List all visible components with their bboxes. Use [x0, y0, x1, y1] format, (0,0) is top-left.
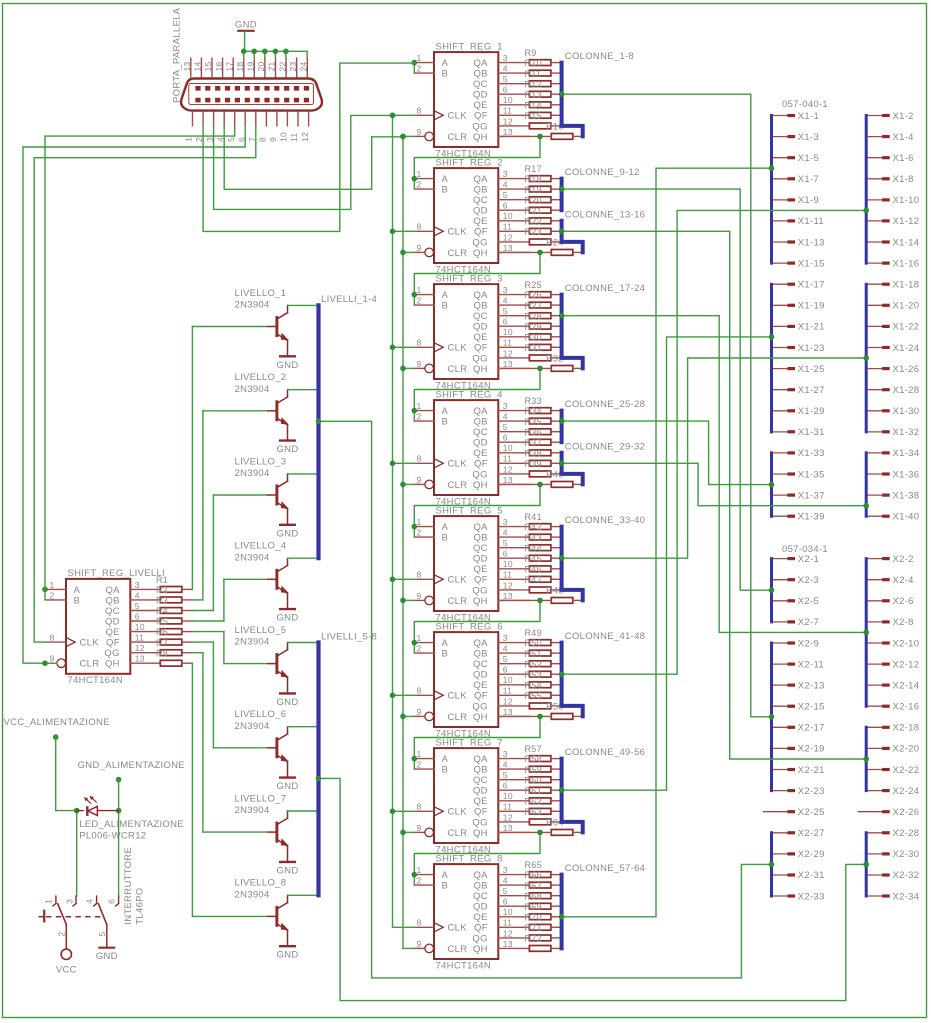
svg-text:COLONNE_41-48: COLONNE_41-48	[565, 631, 645, 642]
svg-text:X1-21: X1-21	[798, 322, 825, 333]
svg-text:R8: R8	[156, 648, 168, 658]
svg-text:13: 13	[503, 127, 513, 137]
output pin stubs with numbers	[498, 865, 529, 949]
connector pin X1-15	[772, 258, 825, 269]
svg-text:GND: GND	[276, 613, 298, 624]
resistor R9	[525, 48, 551, 65]
output pin stubs with numbers	[498, 749, 529, 833]
svg-text:QF: QF	[474, 807, 488, 818]
connector pin X1-32	[866, 427, 919, 438]
svg-text:QA: QA	[473, 58, 488, 69]
svg-text:R5: R5	[156, 617, 168, 627]
svg-text:R62: R62	[525, 796, 542, 806]
svg-text:LIVELLO_5: LIVELLO_5	[235, 625, 287, 636]
svg-text:X2-11: X2-11	[798, 659, 824, 670]
wire resistor R29 to bus	[551, 336, 562, 338]
svg-text:1: 1	[417, 401, 422, 411]
svg-text:5: 5	[135, 601, 140, 611]
svg-text:X1-5: X1-5	[798, 153, 819, 164]
ground symbol GND at switch	[96, 948, 118, 963]
connector pin X1-21	[772, 322, 825, 333]
bus COLONNE_13-16	[562, 221, 583, 253]
svg-text:X1-40: X1-40	[893, 512, 920, 523]
svg-text:QE: QE	[473, 332, 487, 343]
connector pin X1-24	[866, 343, 919, 354]
svg-text:X1-22: X1-22	[893, 322, 920, 333]
svg-text:X2-8: X2-8	[893, 617, 914, 628]
wire resistor R23 to bus	[551, 241, 562, 243]
svg-text:11: 11	[503, 106, 512, 116]
svg-text:X2-14: X2-14	[893, 680, 920, 691]
svg-text:6: 6	[135, 611, 140, 621]
wire collector of Q3 to bus	[288, 473, 319, 475]
svg-text:CLR: CLR	[448, 132, 468, 143]
wire resistor R26 to bus	[551, 304, 562, 306]
svg-text:11: 11	[503, 570, 512, 580]
svg-text:3: 3	[503, 865, 508, 875]
svg-text:QH: QH	[473, 248, 488, 259]
resistor R25	[525, 280, 551, 297]
ground symbol GND above port	[235, 20, 257, 31]
resistor R38	[525, 448, 551, 466]
svg-text:057-040-1: 057-040-1	[782, 99, 828, 110]
wire A-B tie SHIFT_REG_1	[412, 60, 418, 73]
port bottom pin numbers 1-12	[184, 132, 310, 142]
connector pin X1-19	[772, 301, 825, 312]
wire cascade QH of SHIFT_REG_2 to A/B of SHIFT_REG_3	[412, 250, 543, 306]
connector pin X1-1	[772, 111, 820, 122]
resistor R42	[525, 522, 551, 540]
svg-text:GND: GND	[276, 865, 298, 876]
wire port pin 3 to CLK chain	[214, 113, 396, 210]
svg-text:R51: R51	[525, 649, 542, 659]
svg-text:X1-14: X1-14	[893, 237, 920, 248]
svg-text:R15: R15	[525, 111, 542, 121]
port bottom pin stubs 1-12	[193, 112, 309, 127]
wire resistor R25 to bus	[551, 294, 562, 296]
wire resistor R62 to bus	[551, 810, 562, 812]
svg-text:GND: GND	[276, 360, 298, 371]
connector pin X1-12	[866, 216, 919, 227]
wire resistor R38 to bus	[551, 462, 562, 464]
svg-text:X2-1: X2-1	[798, 554, 819, 565]
svg-text:R4: R4	[156, 606, 168, 616]
connector pin X1-31	[772, 427, 825, 438]
resistor R2	[156, 585, 182, 603]
svg-text:12: 12	[135, 643, 145, 653]
resistor R43	[525, 533, 551, 551]
svg-text:QG: QG	[472, 933, 487, 944]
resistor R5	[156, 617, 182, 635]
connector pin X1-9	[772, 195, 820, 206]
svg-text:16: 16	[214, 61, 224, 71]
svg-text:X2-24: X2-24	[893, 786, 920, 797]
svg-text:SHIFT_REG_4: SHIFT_REG_4	[436, 389, 503, 400]
svg-text:R54: R54	[525, 680, 542, 690]
svg-text:5: 5	[226, 137, 236, 142]
svg-text:R2: R2	[156, 585, 168, 595]
svg-text:LIVELLO_7: LIVELLO_7	[235, 793, 287, 804]
wire resistor R44 to bus	[551, 557, 562, 559]
svg-text:SHIFT_REG_8: SHIFT_REG_8	[436, 853, 503, 864]
supply symbol VCC	[56, 949, 77, 975]
wire resistor R22 to bus	[551, 230, 562, 232]
svg-text:3: 3	[503, 285, 508, 295]
svg-text:X1-28: X1-28	[893, 385, 920, 396]
svg-text:R36: R36	[525, 427, 542, 437]
svg-text:13: 13	[503, 359, 513, 369]
svg-text:X1-10: X1-10	[893, 195, 920, 206]
resistor R4	[156, 606, 182, 624]
svg-text:R44: R44	[525, 543, 542, 553]
connector pin X1-29	[772, 406, 825, 417]
resistor R63	[525, 807, 551, 825]
svg-text:13: 13	[135, 654, 145, 664]
svg-text:74HCT164N: 74HCT164N	[68, 675, 124, 686]
resistor R19	[525, 185, 551, 203]
svg-text:QC: QC	[473, 79, 488, 90]
svg-text:2N3904: 2N3904	[235, 300, 270, 311]
svg-text:10: 10	[503, 675, 513, 685]
resistor R24	[551, 250, 573, 256]
wire COLONNE_33-40 to X1 right bus2	[559, 355, 869, 561]
connector pin X2-25	[764, 807, 825, 818]
svg-text:11: 11	[135, 633, 144, 643]
svg-text:R67: R67	[525, 881, 542, 891]
svg-text:R58: R58	[525, 754, 542, 764]
svg-text:2: 2	[417, 644, 422, 654]
svg-text:QD: QD	[473, 206, 488, 217]
connector pin X1-18	[866, 280, 919, 291]
resistor R39	[525, 459, 551, 477]
svg-text:R39: R39	[525, 459, 542, 469]
svg-text:X2-20: X2-20	[893, 744, 920, 755]
wire base of Q2	[203, 410, 268, 412]
ground symbol GND at Q1	[276, 356, 298, 371]
bus segment X2 right rows 2-16	[865, 559, 868, 707]
connector 057-034-1 X2	[0, 0, 1, 1]
wire cascade QH of SHIFT_REG_1 to A/B of SHIFT_REG_2	[412, 134, 543, 190]
wire resistor R33 to bus	[551, 410, 562, 412]
resistor R57	[525, 744, 551, 761]
svg-text:9: 9	[417, 939, 422, 949]
resistor R31	[525, 343, 551, 361]
svg-text:QB: QB	[473, 301, 487, 312]
svg-text:2: 2	[417, 528, 422, 538]
svg-text:13: 13	[503, 475, 513, 485]
svg-text:2N3904: 2N3904	[235, 889, 270, 900]
svg-text:A: A	[442, 638, 449, 649]
svg-text:QB: QB	[473, 649, 487, 660]
svg-text:X1-19: X1-19	[798, 301, 825, 312]
svg-text:12: 12	[300, 132, 310, 142]
connector pin X1-5	[772, 153, 820, 164]
connector pin X2-23	[772, 786, 825, 797]
connector pin X1-2	[866, 111, 914, 122]
svg-text:B: B	[442, 765, 449, 776]
svg-text:X1-17: X1-17	[798, 280, 825, 291]
resistor R34	[525, 406, 551, 424]
svg-text:R71: R71	[525, 923, 542, 933]
wire cascade QH of SHIFT_REG_3 to A/B of SHIFT_REG_4	[412, 366, 543, 422]
svg-text:B: B	[442, 417, 449, 428]
resistor R33	[525, 396, 551, 413]
bus COLONNE_25-28	[560, 411, 564, 443]
wire cascade QH of SHIFT_REG_6 to A/B of SHIFT_REG_7	[412, 714, 543, 769]
svg-text:R63: R63	[525, 807, 542, 817]
svg-text:B: B	[442, 881, 449, 892]
bus COLONNE_1-8	[562, 63, 583, 137]
bus segment X2 left rows 9-23	[770, 643, 773, 791]
svg-text:X2-33: X2-33	[798, 891, 825, 902]
svg-text:1: 1	[417, 53, 422, 63]
wire resistor R6 to transistor Q6 base	[182, 642, 214, 748]
resistor R27	[525, 301, 551, 319]
svg-text:4: 4	[503, 180, 508, 190]
svg-text:R23: R23	[525, 227, 542, 237]
svg-text:X1-15: X1-15	[798, 258, 825, 269]
connector pin X2-30	[866, 849, 919, 860]
svg-text:8: 8	[258, 137, 268, 142]
svg-text:X1-23: X1-23	[798, 343, 825, 354]
svg-text:X2-23: X2-23	[798, 786, 825, 797]
shift register U6 74HCT164N	[414, 621, 502, 739]
resistor R29	[525, 322, 551, 340]
svg-text:1: 1	[417, 517, 422, 527]
resistor R70	[525, 912, 551, 930]
resistor R68	[525, 891, 551, 909]
svg-text:9: 9	[417, 127, 422, 137]
resistor R1	[156, 575, 182, 592]
svg-text:6: 6	[503, 201, 508, 211]
svg-text:20: 20	[256, 61, 266, 71]
connector pin X2-12	[866, 659, 919, 670]
wire resistor R30 to bus	[551, 346, 562, 348]
svg-text:R47: R47	[525, 575, 542, 585]
svg-text:QD: QD	[473, 670, 488, 681]
connector pin X1-22	[866, 322, 919, 333]
svg-text:GND_ALIMENTAZIONE: GND_ALIMENTAZIONE	[78, 760, 185, 771]
resistor R50	[525, 638, 551, 656]
connector pin X1-7	[772, 174, 820, 185]
wire collector of Q7 to bus	[288, 810, 319, 812]
svg-text:4: 4	[503, 412, 508, 422]
wire resistor R1 to transistor Q1 base	[182, 327, 193, 590]
wire resistor R54 to bus	[551, 694, 562, 696]
wire QH stub to resistor R48	[498, 599, 551, 601]
svg-text:X2-21: X2-21	[798, 765, 825, 776]
svg-text:QD: QD	[473, 554, 488, 565]
svg-text:X1-8: X1-8	[893, 174, 914, 185]
wire resistor R35 to bus	[551, 431, 562, 433]
resistor R17	[525, 164, 551, 181]
connector pin X2-3	[772, 575, 820, 586]
switch INTERRUTTORE TL46PO	[39, 847, 145, 949]
resistor R41	[525, 512, 551, 529]
svg-text:A: A	[442, 290, 449, 301]
connector pin X2-6	[866, 596, 914, 607]
connector pin X1-26	[866, 364, 919, 375]
svg-text:X2-10: X2-10	[893, 638, 920, 649]
wire QH stub to resistor R32	[498, 367, 551, 369]
svg-text:R10: R10	[525, 58, 542, 68]
svg-text:X1-33: X1-33	[798, 448, 825, 459]
svg-text:9: 9	[417, 591, 422, 601]
bus COLONNE_57-64	[560, 875, 564, 949]
connector pin X2-7	[772, 617, 820, 628]
resistor R6	[156, 627, 182, 645]
wire QH stub to resistor R24	[498, 251, 551, 253]
svg-text:COLONNE_49-56: COLONNE_49-56	[565, 747, 645, 758]
connector pin X1-20	[866, 301, 919, 312]
bus segment X2 left rows 27-33	[770, 833, 773, 896]
svg-text:R52: R52	[525, 659, 542, 669]
bus COLONNE_29-32	[562, 453, 583, 485]
svg-text:R9: R9	[525, 48, 537, 58]
connector pin X1-37	[772, 490, 825, 501]
bus LIVELLI_1-4	[316, 305, 320, 558]
svg-text:COLONNE_33-40: COLONNE_33-40	[565, 515, 645, 526]
connector pin X2-20	[866, 744, 919, 755]
svg-text:12: 12	[503, 580, 513, 590]
svg-text:GND: GND	[276, 950, 298, 961]
svg-text:X1-1: X1-1	[798, 111, 819, 122]
wire collector of Q1 to bus	[288, 304, 319, 306]
svg-text:CLK: CLK	[448, 923, 468, 934]
svg-text:QE: QE	[473, 216, 487, 227]
wire resistor R55 to bus	[551, 705, 562, 707]
svg-text:13: 13	[503, 939, 513, 949]
wire resistor R65 to bus	[551, 874, 562, 876]
svg-text:17: 17	[224, 61, 234, 71]
svg-text:10: 10	[135, 622, 145, 632]
resistor R48	[551, 598, 573, 604]
wire resistor R49 to bus	[551, 642, 562, 644]
wire resistor R14 to bus	[551, 114, 562, 116]
svg-text:A: A	[442, 406, 449, 417]
output pin stubs with numbers	[498, 285, 529, 369]
resistor R11	[525, 69, 551, 87]
svg-text:R70: R70	[525, 912, 542, 922]
svg-text:R60: R60	[525, 775, 542, 785]
shift register U5 74HCT164N	[414, 505, 502, 623]
svg-text:GND: GND	[276, 444, 298, 455]
svg-text:X2-26: X2-26	[893, 807, 920, 818]
wire resistor R19 to bus	[551, 199, 562, 201]
connector pin X1-10	[866, 195, 919, 206]
wire COLONNE_1-8 to X2 left bus2	[559, 91, 775, 719]
transistor Q7 LIVELLO_7 2N3904	[235, 793, 289, 862]
connector pin X2-26	[858, 807, 919, 818]
svg-text:QE: QE	[473, 680, 487, 691]
svg-text:12: 12	[503, 464, 513, 474]
wire resistor R7 to transistor Q7 base	[182, 653, 203, 832]
svg-text:R35: R35	[525, 417, 542, 427]
svg-text:6: 6	[106, 899, 116, 904]
svg-text:8: 8	[417, 686, 422, 696]
bus COLONNE_9-12	[560, 179, 564, 211]
svg-text:X2-9: X2-9	[798, 638, 819, 649]
resistor R59	[525, 765, 551, 783]
svg-text:A: A	[442, 870, 449, 881]
wire port pin 5 to SHIFT_REG_LIVELLI A/B input	[42, 127, 235, 593]
svg-text:QC: QC	[473, 891, 488, 902]
wire resistor R59 to bus	[551, 779, 562, 781]
resistor R51	[525, 649, 551, 667]
ground symbol GND at Q5	[276, 693, 298, 708]
connector pin X2-15	[772, 702, 825, 713]
bus LIVELLI_5-8	[316, 643, 320, 896]
svg-text:QF: QF	[474, 923, 488, 934]
ground symbol GND at Q4	[276, 609, 298, 624]
connector pin X1-33	[772, 448, 825, 459]
svg-text:R11: R11	[525, 69, 542, 79]
svg-text:LIVELLO_4: LIVELLO_4	[235, 541, 287, 552]
resistor R49	[525, 628, 551, 645]
svg-text:13: 13	[503, 243, 513, 253]
svg-text:1: 1	[184, 137, 194, 142]
svg-text:QG: QG	[472, 353, 487, 364]
wire base of Q1	[192, 326, 268, 328]
svg-text:QG: QG	[472, 817, 487, 828]
svg-text:19: 19	[246, 61, 256, 71]
svg-text:X2-34: X2-34	[893, 891, 920, 902]
wire resistor R41 to bus	[551, 526, 562, 528]
resistor R32	[551, 366, 573, 372]
svg-text:A: A	[442, 522, 449, 533]
svg-text:8: 8	[417, 918, 422, 928]
svg-text:4: 4	[503, 296, 508, 306]
wire resistor R20 to bus	[551, 209, 562, 211]
svg-text:4: 4	[503, 64, 508, 74]
connector pin X1-39	[772, 512, 825, 523]
svg-text:R25: R25	[525, 280, 542, 290]
connector pin X1-35	[772, 469, 825, 480]
svg-text:QG: QG	[472, 121, 487, 132]
svg-text:X1-2: X1-2	[893, 111, 914, 122]
resistor R13	[525, 90, 551, 108]
shift register U1 74HCT164N	[414, 41, 502, 159]
wire collector of Q6 to bus	[288, 726, 319, 728]
shift register U7 74HCT164N	[414, 737, 502, 855]
wire resistor R2 to transistor Q2 base	[182, 411, 203, 600]
wire COLONNE_13-16 to X2 right bus2	[559, 229, 869, 762]
output pin stubs with numbers	[498, 169, 529, 253]
svg-text:11: 11	[503, 802, 512, 812]
resistor R30	[525, 332, 551, 350]
wire cascade QH of SHIFT_REG_7 to A/B of SHIFT_REG_8	[412, 830, 543, 885]
wire port pin 2 to SHIFT_REG_1 A/B input	[203, 63, 414, 231]
svg-text:R3: R3	[156, 596, 168, 606]
resistor R36	[525, 427, 551, 445]
svg-text:5: 5	[503, 306, 508, 316]
svg-text:PL006-WCR12: PL006-WCR12	[79, 830, 146, 841]
svg-text:GND: GND	[235, 20, 257, 31]
svg-text:GND: GND	[276, 781, 298, 792]
connector pin X2-5	[772, 596, 820, 607]
svg-text:CLK: CLK	[448, 343, 468, 354]
wire resistor R5 to transistor Q5 base	[182, 632, 224, 664]
connector pin X2-31	[772, 870, 825, 881]
svg-text:QH: QH	[473, 132, 488, 143]
connector pin X1-14	[866, 237, 919, 248]
svg-text:LIVELLO_3: LIVELLO_3	[235, 456, 287, 467]
svg-text:SHIFT_REG_2: SHIFT_REG_2	[436, 157, 503, 168]
svg-text:2: 2	[417, 64, 422, 74]
svg-text:SHIFT_REG_5: SHIFT_REG_5	[436, 505, 503, 516]
svg-text:5: 5	[503, 538, 508, 548]
svg-text:13: 13	[182, 61, 192, 71]
